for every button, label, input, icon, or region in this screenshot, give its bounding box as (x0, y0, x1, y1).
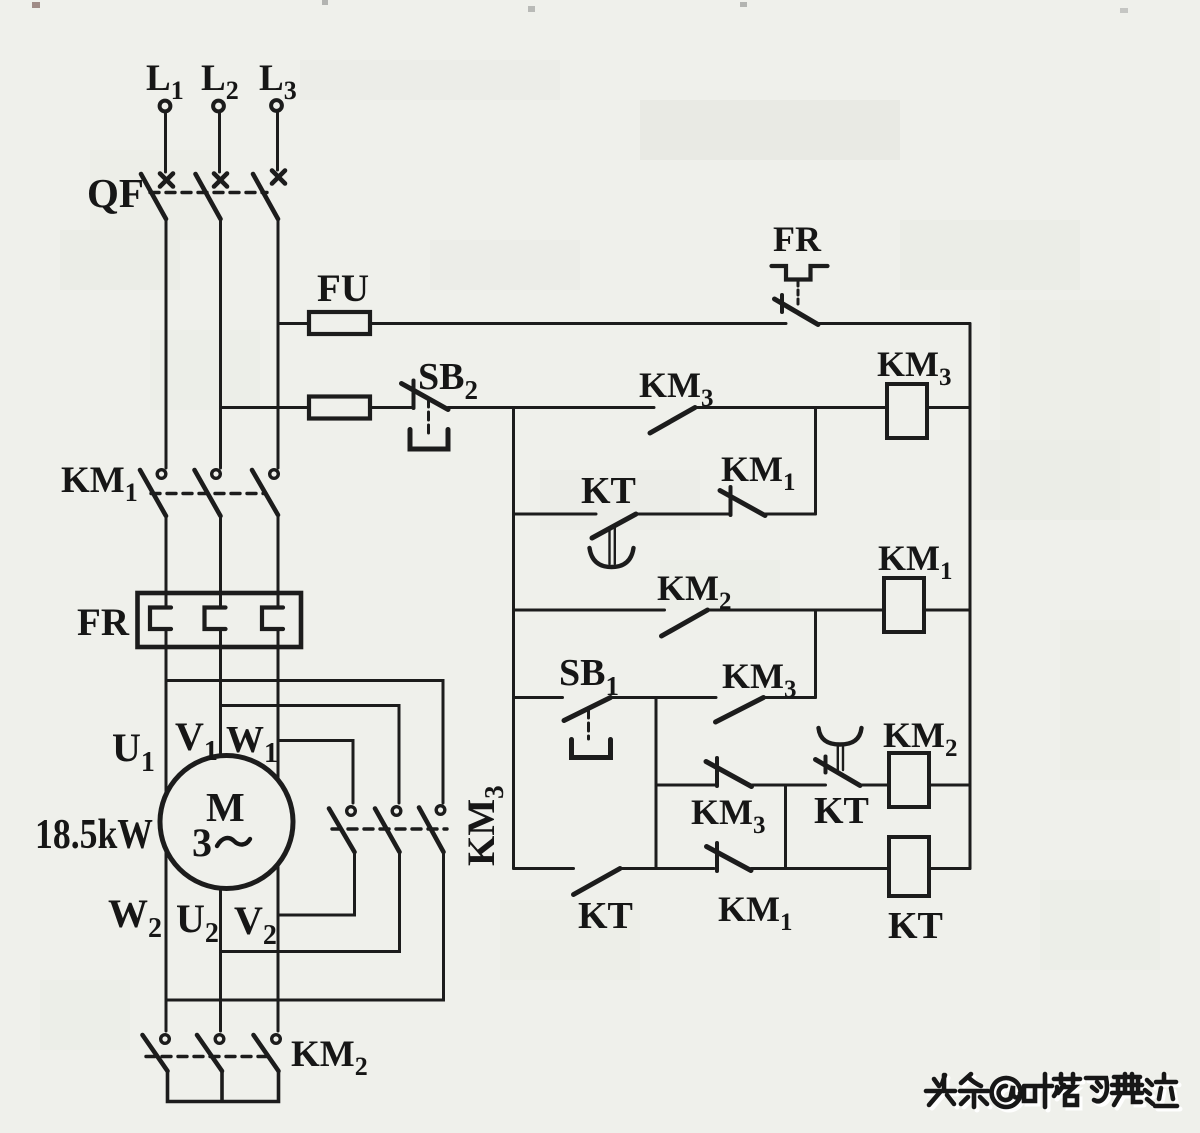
coil KM3 (887, 384, 927, 438)
contact KM3 NO (row5) (716, 698, 764, 723)
contactor KM3 main pole 2 (375, 807, 401, 852)
char at (992, 1078, 1021, 1107)
svg-text:QF: QF (87, 170, 144, 216)
contactor KM1 linkage (151, 492, 266, 495)
contactor KM1 main pole 3 (252, 470, 278, 515)
contactor KM2 main pole 2 (197, 1035, 224, 1071)
char tou (926, 1075, 955, 1105)
terminal L1 (160, 101, 171, 112)
wire W1 to KM3 pole1 top (278, 741, 353, 804)
FR heater element 2 (205, 608, 226, 630)
fuse FU1 (309, 312, 370, 334)
contactor KM3 main pole 1 (329, 807, 355, 852)
breaker QF pole 3 (253, 171, 285, 220)
wire row1 FR to right rail (818, 322, 970, 325)
wire phase C lower (277, 629, 280, 1031)
contact KM1 NC (row3) (720, 487, 765, 516)
FR heater element 3 (262, 608, 283, 630)
wire row7 rail to KT contact (514, 867, 574, 870)
junction vertical C (655, 698, 658, 869)
wire row6 from junction C (656, 784, 717, 787)
contact KT NC delayed-open (816, 728, 862, 786)
wire L2 drop (218, 112, 221, 172)
wire row3 KT to KM1 contact (636, 513, 731, 516)
wire row3 to junction A (765, 513, 816, 516)
motor M circle (160, 756, 293, 889)
wire row5 contact to junction B (764, 696, 816, 699)
junction vertical A (814, 408, 817, 515)
FR thermal element symbol (772, 266, 828, 280)
char fei (1086, 1078, 1107, 1101)
wire row4 coil to rail (924, 609, 970, 612)
pushbutton SB2 (NC) (402, 381, 449, 450)
char ye (1024, 1074, 1052, 1107)
junction vertical D (784, 785, 787, 869)
contactor KM1 main pole 1 (140, 470, 166, 516)
wire KM3 pole1 bottom to V2 (278, 852, 355, 915)
wire row7 KT to KM1 contact (620, 867, 714, 870)
pushbutton SB1 (NO) (564, 698, 611, 758)
coil KT (889, 837, 929, 896)
wire phase B upper (219, 219, 222, 468)
wire L3 drop (276, 112, 279, 170)
svg-text:FR: FR (773, 219, 822, 259)
char qi (1145, 1074, 1177, 1106)
wire row2 from L2 to fuse (221, 406, 310, 409)
terminal L2 (213, 101, 224, 112)
wire row2 fuse to SB2 (370, 406, 414, 409)
junction vertical B (814, 610, 817, 698)
wire phase B mid (219, 516, 222, 608)
wire row2 coil to rail (927, 406, 970, 409)
wire row2 contact to coil (695, 406, 887, 409)
wire L1 drop (164, 112, 167, 172)
char wu (1112, 1074, 1142, 1105)
wire U1 to KM3 pole3 top (166, 681, 443, 804)
coil KM1 (884, 578, 924, 632)
wire phase C mid (277, 515, 280, 608)
contact KM2 (row4) (662, 610, 708, 636)
top edge specks (32, 0, 1128, 13)
wire V1 to KM3 pole2 top (221, 706, 400, 804)
left rail (512, 408, 515, 869)
wire row6 to KT delayed contact (752, 784, 826, 787)
wire KM3 pole3 bottom to W2 (166, 852, 444, 1000)
svg-text:KT: KT (814, 790, 869, 832)
char tiao (960, 1074, 988, 1107)
wire row4 rail to KM2 contact (514, 609, 665, 612)
breaker QF pole 2 (196, 174, 228, 220)
contact KM3 NC (row6) (706, 758, 752, 787)
contact KM1 NC (row7) (707, 843, 752, 871)
contact KT NO delayed-close (590, 514, 637, 567)
wire row2 SB2 to KM3 contact (448, 406, 654, 409)
wire phase C upper (277, 219, 280, 468)
fuse FU2 (309, 397, 370, 419)
contactor KM3 main pole 3 (419, 806, 445, 852)
contactor KM2 linkage (146, 1055, 268, 1058)
coil KM2 (889, 753, 929, 807)
svg-text:FR: FR (77, 601, 130, 644)
wire row5 SB1 to KM3 contact (611, 696, 717, 699)
wire row1 fuse to FR contact (370, 322, 786, 325)
FR NC contact (control) (775, 295, 819, 325)
wire phase A upper (165, 219, 168, 468)
svg-text:18.5kW: 18.5kW (35, 812, 153, 858)
wire row7 coil to rail (929, 867, 970, 870)
svg-text:KT: KT (578, 895, 633, 937)
breaker QF pole 1 (141, 174, 173, 220)
contact KT NO (row7) (574, 869, 621, 895)
wire row6 coil to rail (929, 784, 970, 787)
contactor KM3 linkage (332, 827, 447, 830)
wire row1 from L3 to fuse (278, 322, 309, 325)
wire row4 contact to coil (708, 609, 885, 612)
breaker QF linkage (150, 191, 267, 194)
contact KM3 NO (self-hold row) (650, 408, 695, 434)
right rail (969, 324, 972, 869)
terminal L3 (271, 100, 282, 111)
FR heater element 1 (150, 608, 171, 630)
watermark 头条 @叶落飞舞泣 (926, 1074, 1180, 1110)
thermal relay FR box (138, 593, 302, 647)
FR actuator dashed link (797, 281, 800, 306)
wire row3 rail to KT contact (514, 513, 597, 516)
contactor KM2 main pole 1 (143, 1035, 170, 1071)
svg-text:FU: FU (317, 267, 369, 310)
wire KM3 pole2 bottom to U2 (221, 852, 400, 952)
svg-text:3: 3 (192, 820, 212, 865)
svg-text:KT: KT (888, 905, 943, 947)
char luo (1054, 1074, 1080, 1105)
wire row7 to coil KT (751, 867, 889, 870)
wire KM2 star bus (168, 1071, 279, 1102)
wire phase A lower (165, 629, 168, 1031)
wire phase B lower (219, 629, 222, 1031)
wire phase A mid (165, 516, 168, 608)
svg-text:KT: KT (581, 470, 636, 512)
wire row5 rail to SB1 (514, 696, 563, 699)
contactor KM2 main pole 3 (254, 1035, 281, 1071)
wire row6 to coil KM2 (860, 784, 889, 787)
contactor KM1 main pole 2 (195, 470, 221, 516)
